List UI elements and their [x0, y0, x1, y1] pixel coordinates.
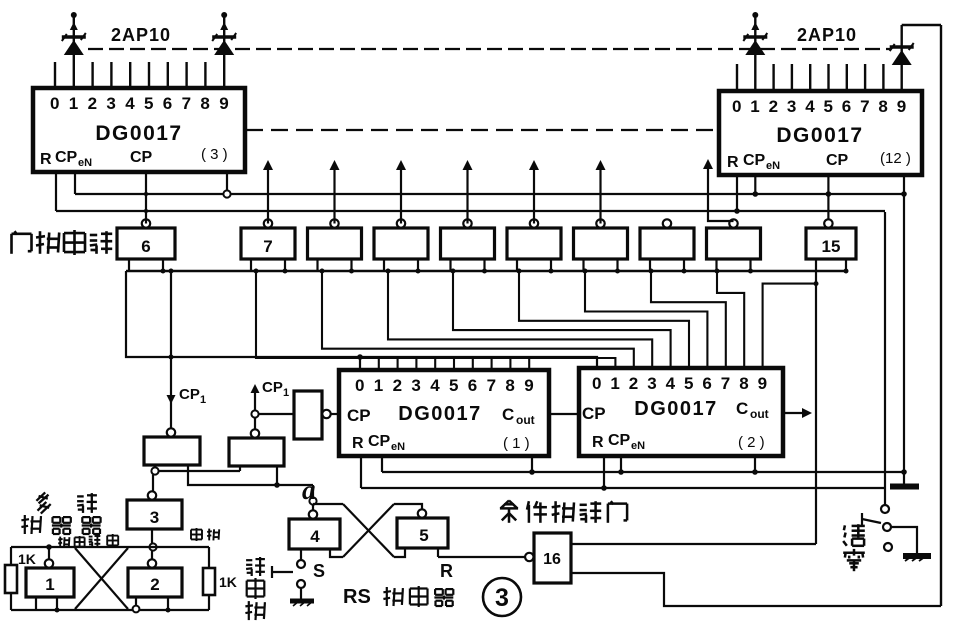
- svg-text:7: 7: [860, 97, 869, 116]
- wire gate13 to pin7 line: [651, 271, 726, 368]
- junction: [144, 209, 148, 213]
- wire U12 CP stub to gate 15: [827, 175, 829, 227]
- wire display output arrow gate 14: [708, 166, 734, 221]
- svg-text:1: 1: [374, 376, 383, 395]
- wire gate2 top stub: [151, 551, 153, 560]
- wire U2 Cout arrow: [783, 412, 804, 414]
- gate 9 output stubs: [383, 259, 385, 271]
- wire right outer rail: [940, 25, 942, 606]
- svg-text:CP: CP: [130, 149, 153, 166]
- gate 8 (gating circuit): [308, 219, 362, 259]
- svg-text:CP: CP: [582, 404, 606, 423]
- svg-text:5: 5: [449, 376, 458, 395]
- wire U1 R stub: [360, 456, 362, 488]
- wire X top-right: [394, 504, 422, 509]
- svg-text:4: 4: [125, 94, 135, 113]
- node circle on bus at U3 pin9: [223, 190, 230, 197]
- gate 7 (gating circuit): [241, 219, 295, 259]
- gate 6 output stubs: [128, 259, 130, 271]
- wire X top-left: [313, 503, 343, 505]
- svg-text:R: R: [440, 561, 453, 581]
- wire switch to ground: [891, 527, 917, 554]
- svg-text:3: 3: [787, 97, 796, 116]
- svg-text:8: 8: [200, 94, 209, 113]
- svg-text:16: 16: [543, 551, 561, 568]
- wire gate16 in2 from gate15: [571, 543, 816, 545]
- wire gate15 down rail: [815, 271, 817, 544]
- arrow CP1 right: [254, 389, 256, 410]
- svg-text:DG0017: DG0017: [776, 124, 863, 147]
- node CP1 tap: [251, 410, 258, 417]
- gate 12 (gating circuit): [574, 219, 628, 259]
- wire gate10 to pin4 line: [453, 271, 671, 368]
- svg-text:( 2 ): ( 2 ): [738, 434, 765, 451]
- svg-text:1: 1: [45, 575, 54, 594]
- svg-text:out: out: [750, 407, 769, 421]
- svg-text:4: 4: [310, 527, 320, 546]
- wire bus R (y211): [56, 210, 885, 212]
- wire CP1 node to buffer: [259, 413, 294, 415]
- svg-text:eN: eN: [631, 440, 645, 452]
- wire mv bottom rail: [11, 609, 209, 611]
- svg-text:5: 5: [144, 94, 153, 113]
- svg-text:( 1 ): ( 1 ): [503, 435, 530, 452]
- label men-kong-dian-lu gating circuit: [12, 230, 113, 255]
- svg-text:6: 6: [468, 376, 477, 395]
- U3 pin number labels 0-9: [50, 94, 229, 113]
- svg-text:5: 5: [824, 97, 833, 116]
- gate 13 (gating circuit): [640, 219, 694, 259]
- ground G2: [903, 553, 931, 559]
- svg-text:eN: eN: [78, 157, 92, 169]
- junction: [274, 482, 280, 488]
- wire gateA to gateB (y471): [159, 470, 240, 472]
- wire S1 to ground: [300, 588, 302, 599]
- svg-text:DG0017: DG0017: [95, 122, 182, 145]
- svg-text:4: 4: [805, 97, 815, 116]
- mv cross-coupling X: [75, 548, 128, 609]
- wire gate B left stub: [239, 466, 241, 471]
- wire display output arrow: [267, 167, 269, 224]
- svg-text:8: 8: [505, 376, 514, 395]
- gate 8 output stubs: [316, 259, 318, 271]
- svg-text:1K: 1K: [219, 574, 237, 590]
- svg-text:9: 9: [897, 97, 906, 116]
- gate 11 (gating circuit): [507, 219, 561, 259]
- IC U12 decade counter DG0017 body: [719, 91, 922, 175]
- wire CP1 feed from gate bus: [170, 271, 172, 428]
- svg-text:5: 5: [684, 374, 693, 393]
- label qing-ling clear: [843, 524, 865, 571]
- svg-text:( 3 ): ( 3 ): [201, 146, 228, 163]
- svg-text:2: 2: [150, 575, 159, 594]
- svg-text:1: 1: [69, 94, 78, 113]
- junction: [826, 191, 832, 197]
- svg-text:2: 2: [393, 376, 402, 395]
- junction: [357, 354, 363, 360]
- wire gate B right stub: [276, 466, 278, 485]
- wire a to gate4: [312, 505, 314, 511]
- svg-text:out: out: [516, 413, 535, 427]
- wire chip1 pin0 stub: [359, 357, 361, 370]
- svg-text:CP: CP: [347, 406, 371, 425]
- wire gate16 output: [571, 573, 941, 606]
- svg-text:6: 6: [842, 97, 851, 116]
- svg-text:2AP10: 2AP10: [797, 25, 857, 45]
- wire U12 pin12 stub down to ground: [903, 175, 905, 472]
- gate 4 RS: [289, 519, 340, 549]
- wire bus Y1 (y472): [382, 471, 906, 473]
- node gate A output: [151, 467, 158, 474]
- wire gate output bus (y271): [126, 270, 846, 272]
- wire U2 R stub: [603, 456, 605, 488]
- svg-text:7: 7: [182, 94, 191, 113]
- gate 15 (gating circuit): [806, 219, 856, 259]
- svg-text:1: 1: [750, 97, 759, 116]
- figure number 3 circled: [483, 578, 521, 616]
- wire gate A out to gate 3: [152, 475, 154, 492]
- IC U2 counter DG0017 body: [579, 368, 783, 456]
- wire display output arrow: [599, 167, 601, 224]
- diode D2 2AP10: [212, 12, 236, 88]
- wire U1 Cout to U2 CP: [549, 413, 579, 415]
- gate 9 (gating circuit): [374, 219, 428, 259]
- wire U3 CPen stub: [74, 172, 76, 194]
- svg-text:7: 7: [263, 237, 272, 256]
- svg-text:0: 0: [732, 97, 741, 116]
- diode D1 2AP10: [62, 12, 86, 88]
- wire display output arrow: [333, 167, 335, 224]
- junction: [901, 191, 907, 197]
- switch S2 contact c: [884, 543, 892, 551]
- wire buffer to U1 CP: [331, 413, 339, 415]
- svg-text:RS: RS: [343, 586, 371, 608]
- gate B CP1 buffer: [229, 438, 284, 466]
- node on multivibrator top rail: [149, 543, 156, 550]
- svg-text:3: 3: [411, 376, 420, 395]
- svg-text:1: 1: [610, 374, 619, 393]
- wire display output arrow: [400, 167, 402, 224]
- svg-text:6: 6: [163, 94, 172, 113]
- wire gate3 to top rail: [151, 529, 153, 543]
- svg-text:DG0017: DG0017: [634, 398, 718, 420]
- label ji-suan-jian compute key: [245, 557, 265, 620]
- gate 14 (gating circuit): [707, 219, 761, 259]
- svg-text:(12 ): (12 ): [880, 150, 911, 167]
- wire mv top rail: [11, 546, 209, 548]
- wire gate1 top stub: [48, 547, 50, 559]
- arrow CP1 left: [167, 395, 176, 404]
- svg-text:9: 9: [219, 94, 228, 113]
- svg-text:CP: CP: [608, 432, 631, 449]
- gate 2 astable: [128, 568, 182, 597]
- wire diode D4 to right rail: [902, 24, 941, 26]
- svg-text:4: 4: [666, 374, 676, 393]
- gate 7 output stubs: [250, 259, 252, 271]
- svg-text:7: 7: [721, 374, 730, 393]
- svg-text:3: 3: [106, 94, 115, 113]
- wire U12 R stub: [736, 175, 738, 211]
- svg-text:5: 5: [419, 526, 428, 545]
- wire U1 CPen stub: [381, 456, 383, 472]
- svg-text:CP: CP: [826, 152, 849, 169]
- wire gate5 to gate16: [438, 556, 525, 558]
- wire U2 CPen stub: [620, 456, 622, 472]
- wire gate11 to pin5 line: [519, 271, 689, 368]
- wire gate15 to pin9 line: [763, 284, 816, 368]
- svg-text:2: 2: [769, 97, 778, 116]
- svg-text:CP: CP: [179, 386, 200, 403]
- U12 top pin stubs: [737, 64, 883, 91]
- wire X bottom-right: [394, 548, 405, 557]
- wire gate A stub: [154, 465, 156, 467]
- svg-text:CP: CP: [743, 152, 766, 169]
- gate 1 astable: [26, 568, 74, 597]
- svg-text:R: R: [592, 434, 604, 451]
- gate A CP1 buffer: [144, 437, 200, 465]
- chip1 pin stubs: [379, 359, 529, 370]
- gate 11 output stubs: [516, 259, 518, 271]
- svg-text:CP: CP: [55, 149, 78, 166]
- svg-text:4: 4: [430, 376, 440, 395]
- wire U3 R stub: [55, 172, 57, 211]
- label zhen-dang-qi astable line2: [21, 515, 100, 534]
- U12 pin number labels 0-9: [732, 97, 906, 116]
- wire X bottom-left: [330, 549, 343, 557]
- wire gate14 to pin8 line: [717, 271, 744, 368]
- gate 6 (gating circuit): [117, 219, 175, 259]
- IC U1 counter DG0017 body: [339, 370, 549, 456]
- wire U2 aux stub: [754, 456, 756, 472]
- svg-text:9: 9: [524, 376, 533, 395]
- svg-text:DG0017: DG0017: [398, 403, 482, 425]
- svg-text:1K: 1K: [18, 551, 36, 567]
- svg-text:2: 2: [88, 94, 97, 113]
- ground G3: [290, 599, 314, 604]
- switch S2 clear contact a: [881, 505, 889, 513]
- svg-text:eN: eN: [766, 160, 780, 172]
- junction: [753, 191, 759, 197]
- svg-text:CP: CP: [368, 433, 391, 450]
- svg-text:eN: eN: [391, 441, 405, 453]
- svg-text:2: 2: [629, 374, 638, 393]
- svg-text:2AP10: 2AP10: [111, 25, 171, 45]
- svg-text:6: 6: [702, 374, 711, 393]
- gate 12 output stubs: [582, 259, 584, 271]
- wire gate12 to pin6 line: [585, 271, 707, 368]
- svg-text:0: 0: [355, 376, 364, 395]
- IC U3 decade counter DG0017 body: [33, 88, 245, 172]
- svg-text:7: 7: [487, 376, 496, 395]
- svg-text:0: 0: [592, 374, 601, 393]
- resistor R2 1K: [203, 568, 215, 595]
- junction: [734, 208, 740, 214]
- wire U3 aux stub: [226, 172, 228, 190]
- resistor R1 1K: [5, 565, 17, 593]
- gate 13 output stubs: [649, 259, 651, 271]
- wire display output arrow: [533, 167, 535, 224]
- switch S2 contact b: [883, 523, 891, 531]
- wire bus Y2 (y488): [361, 487, 885, 489]
- wire rail to clear switch: [884, 212, 886, 506]
- label tiao-jian-kong-zhi-men conditional gate: [500, 501, 627, 523]
- wire bus CPen (y194): [75, 193, 904, 195]
- svg-text:R: R: [40, 151, 52, 168]
- wire gate 6 to U3 CP: [145, 172, 147, 224]
- gate 3 astable: [127, 500, 182, 529]
- gate1 bottom stubs: [35, 597, 37, 610]
- gate 16 conditional control: [534, 533, 571, 583]
- dashed wire U3 to U12: [246, 129, 718, 131]
- gate 10 output stubs: [449, 259, 451, 271]
- svg-text:8: 8: [739, 374, 748, 393]
- diode D4 2AP10: [890, 25, 914, 91]
- diode D3 2AP10: [743, 12, 767, 91]
- junction: [144, 192, 148, 196]
- svg-text:C: C: [502, 405, 514, 424]
- svg-text:6: 6: [141, 237, 150, 256]
- scan smudge marks: [58, 536, 84, 548]
- svg-text:3: 3: [495, 584, 509, 612]
- gate 14 output stubs: [715, 259, 717, 271]
- svg-text:R: R: [352, 435, 364, 452]
- svg-text:9: 9: [758, 374, 767, 393]
- svg-text:a: a: [302, 475, 316, 505]
- wire U12 CPen stub: [754, 175, 756, 194]
- RS cross X: [343, 504, 394, 557]
- switch S2 lever: [862, 519, 881, 523]
- svg-text:0: 0: [50, 94, 59, 113]
- wire down to node a: [312, 485, 314, 497]
- U2 pin number labels 0-9: [592, 374, 767, 393]
- U3 top pin stubs: [55, 62, 205, 88]
- svg-text:1: 1: [283, 387, 289, 399]
- gate 15 output stubs: [815, 259, 817, 271]
- svg-text:3: 3: [150, 508, 159, 527]
- wire gate9 to pin3 line: [388, 271, 652, 368]
- wire mv left: [10, 547, 12, 565]
- svg-text:S: S: [313, 561, 325, 581]
- wire gate A right stub to a-line: [188, 465, 313, 485]
- buffer gate CP input: [294, 391, 322, 439]
- wire gate6 to pin0 line: [126, 271, 597, 368]
- ground G1: [903, 472, 905, 485]
- svg-text:3: 3: [647, 374, 656, 393]
- wire display output arrow: [466, 167, 468, 224]
- gate 10 (gating circuit): [441, 219, 495, 259]
- junction: [901, 469, 907, 475]
- switch S1 compute key: [297, 560, 305, 568]
- svg-text:C: C: [736, 399, 748, 418]
- wire gate5 R stub: [437, 548, 439, 557]
- gate 5 RS: [397, 518, 448, 548]
- svg-text:8: 8: [878, 97, 887, 116]
- svg-text:15: 15: [822, 237, 841, 256]
- wire gate7 to pin1 line: [256, 271, 615, 368]
- wire gate8 to pin2 line: [322, 271, 634, 368]
- svg-text:R: R: [727, 154, 739, 171]
- label duo-xie astable line1: [36, 492, 97, 513]
- U1 pin number labels 0-9: [355, 376, 534, 395]
- wire mv right: [208, 547, 210, 568]
- dash-dot wire between diodes: [88, 48, 890, 50]
- svg-text:1: 1: [200, 394, 206, 406]
- wire U1 aux stub: [531, 456, 533, 472]
- node a: [309, 497, 316, 504]
- wire gate4 S stub: [300, 549, 302, 560]
- wire CP1 node to gate B: [254, 418, 256, 429]
- gate2 bottom stubs: [135, 597, 137, 606]
- svg-text:CP: CP: [262, 379, 283, 396]
